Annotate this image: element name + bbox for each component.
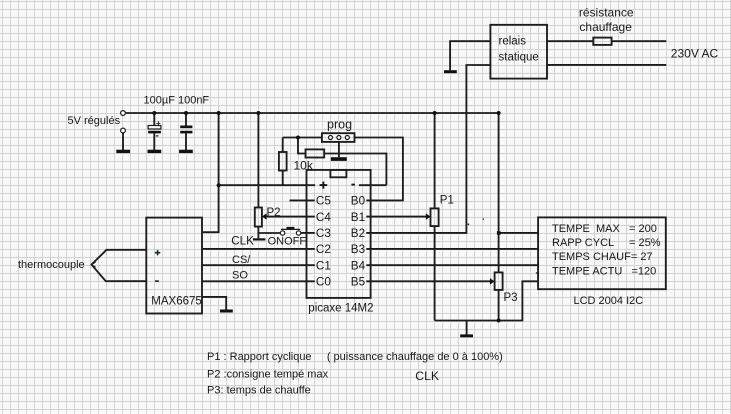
svg-text:TEMPE ACTU =120: TEMPE ACTU =120 <box>552 266 656 278</box>
svg-text:picaxe 14M2: picaxe 14M2 <box>308 303 373 315</box>
svg-text:B2: B2 <box>351 227 365 240</box>
svg-text:SO: SO <box>232 270 248 282</box>
svg-text:P2: P2 <box>267 207 281 219</box>
svg-text:prog: prog <box>327 118 352 132</box>
svg-text:-: - <box>156 131 159 142</box>
svg-text:relais: relais <box>499 36 527 48</box>
svg-text:B5: B5 <box>351 276 366 289</box>
svg-text:B3: B3 <box>351 243 365 256</box>
svg-text:CLK: CLK <box>231 234 254 247</box>
svg-text:+: + <box>156 119 161 128</box>
svg-text:résistance: résistance <box>579 5 634 19</box>
svg-text:chauffage: chauffage <box>579 20 632 34</box>
svg-text:MAX6675: MAX6675 <box>151 295 202 307</box>
svg-text:CS/: CS/ <box>232 254 251 266</box>
svg-text:C0: C0 <box>316 276 331 289</box>
svg-text:C1: C1 <box>316 260 331 273</box>
svg-text:C3: C3 <box>316 227 331 240</box>
svg-text:100µF 100nF: 100µF 100nF <box>144 94 210 106</box>
svg-text:B1: B1 <box>351 211 365 224</box>
svg-text:P1 : Rapport cyclique ( pu: P1 : Rapport cyclique ( puissance chauff… <box>207 351 503 363</box>
svg-text:230V AC: 230V AC <box>671 46 719 60</box>
svg-text:TEMPS CHAUF= 27: TEMPS CHAUF= 27 <box>552 251 653 263</box>
svg-text:ONOFF: ONOFF <box>268 236 307 248</box>
svg-text:P3: temps de chauffe: P3: temps de chauffe <box>207 385 311 397</box>
svg-text:CLK: CLK <box>415 369 439 383</box>
svg-text:B4: B4 <box>351 260 366 273</box>
svg-text:C2: C2 <box>316 243 331 256</box>
svg-text:thermocouple: thermocouple <box>18 259 85 271</box>
svg-text:RAPP CYCL = 25%: RAPP CYCL = 25% <box>552 237 661 249</box>
svg-text:5V régulés: 5V régulés <box>68 115 121 127</box>
svg-text:B0: B0 <box>351 195 366 208</box>
svg-text:statique: statique <box>499 52 539 64</box>
svg-text:LCD 2004 I2C: LCD 2004 I2C <box>574 295 644 307</box>
svg-text:P3: P3 <box>504 292 518 304</box>
svg-text:10k: 10k <box>294 158 314 172</box>
svg-text:P2 :consigne tempé max: P2 :consigne tempé max <box>207 369 329 381</box>
svg-text:C4: C4 <box>316 211 331 224</box>
svg-text:TEMPE MAX = 200: TEMPE MAX = 200 <box>552 223 657 235</box>
svg-text:P1: P1 <box>440 195 454 207</box>
svg-text:C5: C5 <box>316 195 331 208</box>
